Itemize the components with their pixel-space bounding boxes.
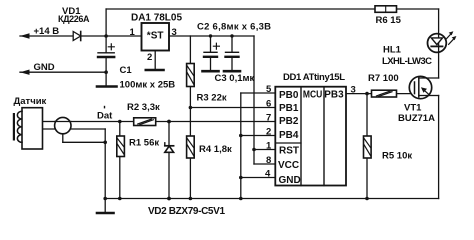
wire LED cathode to drain: [438, 53, 440, 78]
wire pin5 PB0 lead: [241, 92, 275, 94]
svg-text:1: 1: [130, 27, 136, 38]
wire R2 to DD1 pin7: [156, 121, 276, 123]
node RST to VCC junction: [252, 148, 256, 152]
svg-text:GND: GND: [34, 62, 55, 73]
node GND/C1 junction: [104, 70, 108, 74]
resistor R4: [187, 136, 195, 158]
svg-text:VCC: VCC: [278, 160, 299, 171]
svg-text:2: 2: [147, 52, 152, 63]
node PB4 junction: [239, 134, 243, 138]
wire C1 top: [105, 36, 107, 53]
node VD2 rail junction: [167, 197, 171, 201]
svg-text:Dat: Dat: [97, 111, 113, 122]
svg-text:MCU: MCU: [303, 90, 322, 101]
svg-text:PB0: PB0: [279, 90, 299, 101]
svg-text:RST: RST: [279, 146, 299, 157]
arrow +14V: [20, 33, 30, 38]
wire VCC bus vertical: [253, 36, 255, 164]
resistor R5: [364, 136, 372, 158]
wire R3 top to +5V: [189, 36, 191, 64]
svg-text:3: 3: [351, 85, 356, 96]
wire pin1 RST lead: [254, 149, 275, 151]
wire sensor circle bottom drop: [62, 134, 64, 143]
svg-text:PB2: PB2: [279, 116, 299, 127]
wire pin4 GND lead: [241, 177, 275, 179]
transistor VT1: [409, 76, 438, 98]
wire C2 bottom: [210, 58, 212, 71]
svg-text:HL1: HL1: [383, 45, 402, 56]
LED HL1: [428, 31, 457, 52]
wire R7 to gate: [397, 93, 415, 95]
node vertical B to rail: [239, 197, 243, 201]
wire sensor lower stub: [43, 128, 106, 130]
node R5 rail junction: [365, 197, 369, 201]
svg-text:C3 0,1мк: C3 0,1мк: [215, 73, 255, 84]
svg-text:BUZ71A: BUZ71A: [398, 113, 435, 124]
ground symbol C1: [97, 85, 117, 88]
wire pin3 PB3 to R7: [346, 93, 372, 95]
svg-text:R2 3,3к: R2 3,3к: [127, 102, 160, 113]
node R5 junction: [365, 92, 369, 96]
wire sensor lower drop: [104, 129, 106, 199]
svg-text:4: 4: [265, 169, 271, 180]
wire pin8 VCC lead: [254, 163, 275, 165]
node C3 tap: [230, 34, 233, 37]
wire C3 bottom: [231, 58, 233, 71]
svg-text:R3 22к: R3 22к: [197, 93, 227, 104]
svg-text:+14 В: +14 В: [34, 26, 60, 37]
node R4 rail junction: [189, 197, 193, 201]
svg-text:R1 56к: R1 56к: [129, 138, 159, 149]
svg-text:R5 10к: R5 10к: [382, 151, 412, 162]
wire DA1 pin2 down: [154, 51, 156, 70]
svg-text:DA1 78L05: DA1 78L05: [131, 13, 182, 24]
wire through sensor circle: [55, 121, 71, 123]
wire pin6 PB1 lead from divider: [190, 107, 275, 109]
node +14V junction: [104, 34, 108, 38]
wire vertical riser to top rail: [105, 9, 107, 36]
wire sensor upper stub: [43, 121, 55, 123]
node VD2 to Dat-line junction: [167, 120, 171, 124]
wire pin2 PB4 lead: [241, 135, 275, 137]
svg-text:5: 5: [266, 84, 272, 95]
svg-text:*ST: *ST: [147, 31, 164, 42]
wire C1 bottom to ground bar: [105, 57, 107, 86]
wire sensor circle bottom horizontal: [63, 141, 105, 143]
arrow GND: [20, 70, 30, 75]
wire C3 top: [231, 36, 233, 52]
svg-text:C2 6,8мк x 6,3В: C2 6,8мк x 6,3В: [197, 21, 271, 32]
svg-text:100мк x 25В: 100мк x 25В: [120, 80, 176, 91]
svg-text:1: 1: [266, 141, 272, 152]
wire R1 top: [119, 122, 121, 137]
resistor R3: [187, 64, 195, 87]
svg-text:R4 1,8к: R4 1,8к: [199, 144, 232, 155]
ground symbol main: [97, 199, 114, 214]
svg-text:Датчик: Датчик: [14, 96, 47, 107]
wire Dat line sensor to PB2: [71, 121, 134, 123]
svg-text:R7 100: R7 100: [368, 73, 399, 84]
svg-text:GND: GND: [279, 175, 301, 186]
sensor output circle: [55, 117, 71, 133]
ground symbol C2: [203, 70, 219, 73]
wire rail drop to LED anode: [438, 9, 440, 36]
wire R4 bottom to rail: [189, 158, 191, 199]
wire R3 bottom to node: [189, 87, 191, 137]
svg-text:PB4: PB4: [279, 130, 299, 141]
wire top rail left segment: [106, 8, 375, 10]
wire GND input line: [20, 71, 106, 73]
capacitor C3: [226, 52, 239, 57]
diode VD1: [73, 32, 81, 41]
node Dat junction: [118, 120, 122, 124]
regulator DA1: [142, 23, 170, 51]
svg-text:6: 6: [266, 99, 271, 110]
zener diode VD2: [165, 143, 174, 153]
capacitor C2: [204, 43, 219, 57]
svg-text:VT1: VT1: [404, 103, 422, 114]
wire +14V input line: [20, 35, 73, 37]
svg-text:R6 15: R6 15: [376, 15, 402, 26]
wire diode to DA1 pin1: [82, 35, 142, 37]
svg-text:3: 3: [172, 27, 177, 38]
wire R5 bottom: [366, 158, 368, 199]
node C2 tap: [209, 34, 212, 37]
wire +5V line DA1 out: [169, 35, 254, 37]
resistor R2: [134, 118, 156, 126]
wire C2 top: [210, 36, 212, 52]
svg-text:DD1 ATtiny15L: DD1 ATtiny15L: [283, 72, 345, 83]
wire R1 bottom: [119, 157, 121, 199]
wire VD2 anode: [168, 122, 170, 147]
node R3 R4 divider junction: [189, 106, 193, 110]
ground symbol DA1 pin2: [146, 69, 164, 72]
node R1 rail junction: [118, 197, 122, 201]
resistor R1: [117, 136, 125, 157]
ground symbol C3: [224, 70, 240, 73]
svg-text:7: 7: [266, 113, 271, 124]
svg-text:PB3: PB3: [324, 90, 344, 101]
svg-text:8: 8: [266, 155, 271, 166]
svg-text:LXHL-LW3C: LXHL-LW3C: [382, 56, 432, 67]
svg-text:C1: C1: [120, 65, 133, 76]
svg-text:PB1: PB1: [279, 103, 299, 114]
svg-text:КД226А: КД226А: [58, 14, 90, 24]
wire ground rail: [105, 198, 438, 200]
capacitor C1: [98, 44, 114, 57]
node rail left junction: [103, 197, 107, 201]
svg-text:VD2 BZX79-C5V1: VD2 BZX79-C5V1: [148, 206, 225, 217]
wire R5 top: [366, 94, 368, 136]
wire top rail right segment: [397, 8, 439, 10]
microcontroller DD1: [275, 87, 346, 186]
resistor R6: [375, 6, 397, 13]
wire VD2 cathode to rail: [168, 152, 170, 198]
resistor R7: [372, 90, 397, 97]
node sensor ground junction: [103, 141, 107, 145]
wire source to rail: [438, 96, 440, 199]
node GND pin junction: [239, 176, 243, 180]
wire vertical B PB0-PB4-GND: [240, 93, 242, 199]
sensor coil box: [13, 108, 43, 149]
svg-text:2: 2: [266, 127, 271, 138]
